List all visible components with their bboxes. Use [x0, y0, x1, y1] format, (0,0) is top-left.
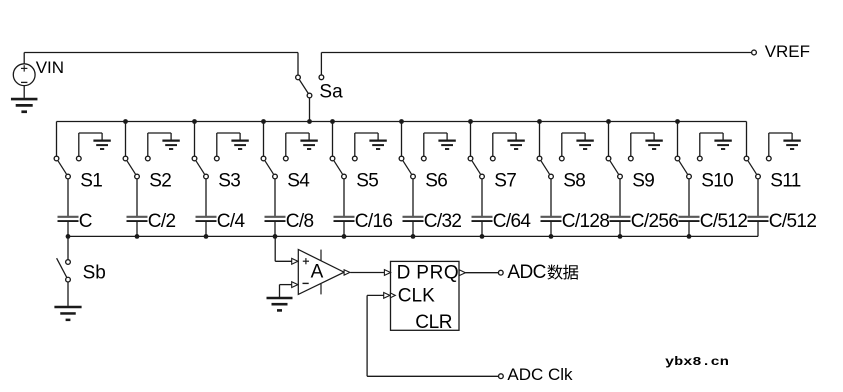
svg-text:S5: S5 [356, 170, 378, 191]
svg-text:ybx8.cn: ybx8.cn [665, 355, 729, 369]
svg-text:S3: S3 [218, 170, 240, 191]
svg-text:S7: S7 [494, 170, 516, 191]
svg-text:ADC Clk: ADC Clk [507, 365, 573, 384]
svg-text:S2: S2 [149, 170, 171, 191]
svg-text:C/64: C/64 [493, 211, 532, 232]
svg-text:S4: S4 [287, 170, 310, 191]
svg-text:C/4: C/4 [217, 211, 246, 232]
svg-text:Sa: Sa [319, 81, 343, 102]
svg-text:ADC: ADC [507, 262, 545, 283]
svg-text:S9: S9 [632, 170, 654, 191]
svg-text:Sb: Sb [83, 263, 106, 284]
svg-text:D: D [397, 263, 411, 284]
svg-text:CLK: CLK [398, 285, 435, 306]
svg-text:A: A [311, 261, 324, 282]
svg-text:S11: S11 [770, 170, 800, 191]
svg-text:PRQ: PRQ [416, 263, 459, 284]
svg-text:C/32: C/32 [424, 211, 462, 232]
svg-text:C/2: C/2 [148, 211, 176, 232]
svg-text:C/512: C/512 [769, 211, 817, 232]
svg-text:C/256: C/256 [631, 211, 679, 232]
svg-text:C/16: C/16 [355, 211, 393, 232]
svg-text:C: C [79, 211, 92, 232]
svg-text:S10: S10 [701, 170, 733, 191]
svg-text:C/128: C/128 [562, 211, 610, 232]
svg-text:VIN: VIN [36, 58, 64, 77]
svg-text:VREF: VREF [765, 42, 810, 61]
svg-text:S6: S6 [425, 170, 447, 191]
svg-text:CLR: CLR [415, 312, 452, 333]
svg-text:S1: S1 [80, 170, 102, 191]
svg-text:C/8: C/8 [286, 211, 314, 232]
svg-text:S8: S8 [563, 170, 585, 191]
svg-text:C/512: C/512 [700, 211, 748, 232]
